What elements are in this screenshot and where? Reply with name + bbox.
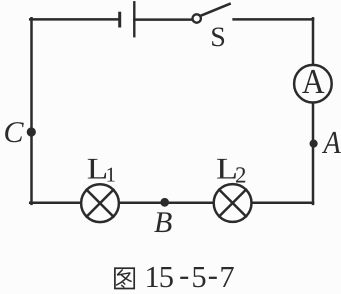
wire right vertical upper (to ammeter): [312, 18, 315, 64]
wire top segment battery to switch: [134, 18, 192, 21]
wire bottom segment left corner to lamp L1: [30, 202, 81, 205]
wire top segment battery left: [30, 18, 118, 21]
svg-text:-: -: [208, 258, 218, 292]
svg-text:A: A: [302, 62, 325, 101]
svg-text:7: 7: [219, 260, 234, 294]
wire bottom segment L1 to L2 (through node B): [120, 202, 213, 205]
svg-text:5: 5: [191, 260, 206, 294]
svg-text:-: -: [179, 258, 189, 292]
caption hanzi TU (figure) drawn as paths: [115, 268, 134, 288]
battery negative plate (short bar): [118, 13, 121, 26]
wire top segment switch to corner: [234, 18, 313, 21]
lamp L1 cross stroke 2: [87, 190, 114, 217]
switch S pivot circle: [193, 14, 201, 22]
lamp L2 circle: [214, 184, 252, 222]
battery positive plate (long bar): [133, 2, 135, 36]
svg-text:C: C: [4, 116, 25, 149]
lamp L2 cross stroke 2: [219, 190, 246, 217]
ammeter U1 circle: [294, 65, 332, 103]
lamp L1 circle: [81, 184, 119, 222]
svg-text:1: 1: [106, 163, 117, 187]
node B junction dot: [160, 198, 169, 207]
wire bottom segment L2 to right corner: [252, 202, 313, 205]
svg-text:15: 15: [145, 260, 175, 294]
svg-text:A: A: [322, 124, 341, 160]
svg-text:S: S: [210, 22, 226, 53]
svg-text:2: 2: [235, 162, 247, 187]
node A junction dot: [310, 140, 318, 148]
switch S lever arm: [201, 4, 230, 16]
lamp L1 cross stroke 1: [87, 190, 114, 217]
lamp L2 cross stroke 1: [219, 190, 246, 217]
svg-text:B: B: [154, 206, 172, 239]
node C junction dot: [27, 127, 36, 136]
wire left vertical (C branch): [30, 18, 33, 204]
wire right vertical lower (ammeter to corner): [312, 103, 315, 204]
